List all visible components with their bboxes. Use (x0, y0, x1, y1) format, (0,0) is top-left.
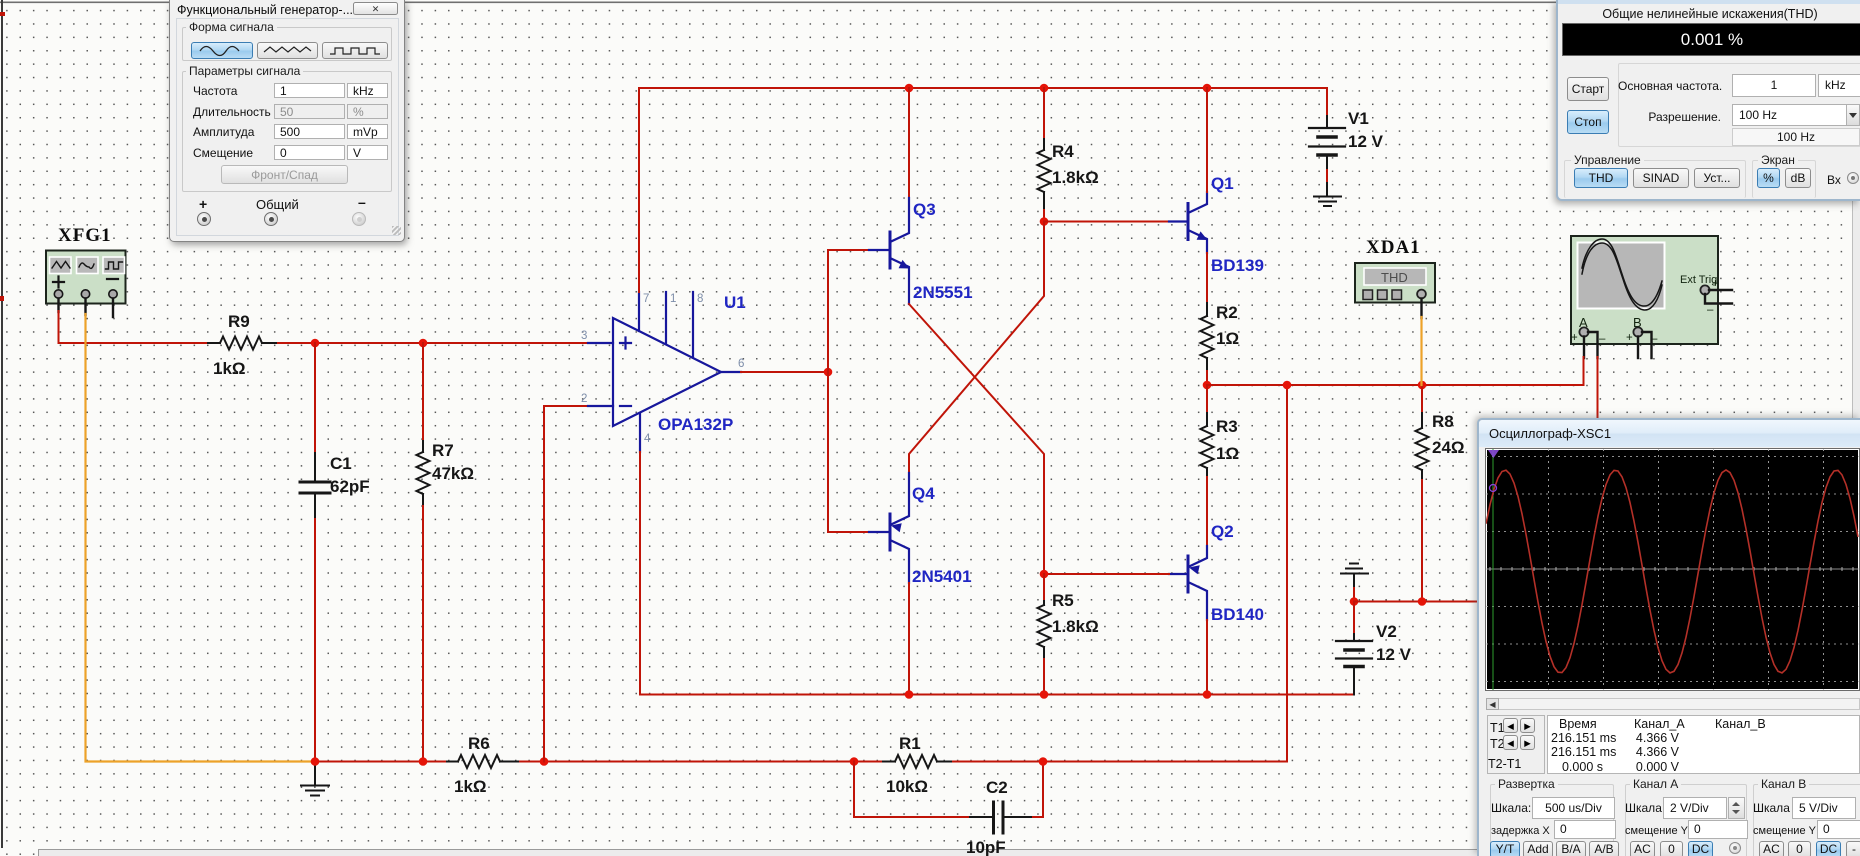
resistor R2 (1201, 303, 1240, 385)
node junction rail/Q3 collector (905, 84, 914, 93)
wire V2 top node (1353, 588, 1355, 602)
node junction R5/Q2 base (1040, 570, 1049, 579)
battery V2 (1336, 602, 1412, 695)
node junction rail/R4 (1040, 84, 1049, 93)
wire op-amp V+ pin7 riser (638, 88, 640, 292)
svg-text:1kΩ: 1kΩ (454, 777, 487, 796)
wire XDA1 orange to output node (1420, 317, 1422, 385)
wire C1 bottom (314, 519, 316, 762)
wire Q4 collector to negative rail (908, 583, 910, 695)
node junction input/R7 (419, 339, 428, 348)
svg-text:R6: R6 (468, 734, 490, 753)
wire scope B+ stub (1637, 337, 1639, 359)
wire output node horizontal (1207, 358, 1584, 385)
node junction negrail/Q4 (905, 690, 914, 699)
wire scope A+ lead (1583, 337, 1585, 359)
node junction output/riser (1283, 381, 1292, 390)
svg-text:U1: U1 (724, 293, 746, 312)
wire Q2 base from R5 node (1044, 573, 1169, 575)
op-amp pin 4 stub (639, 413, 641, 452)
workspace top border (0, 2, 1860, 4)
distortion analyzer XDA1 icon (1355, 263, 1435, 303)
svg-text:+: + (1712, 278, 1719, 290)
node junction R8/V2 net (1418, 597, 1427, 606)
svg-text:Q4: Q4 (912, 484, 935, 503)
resistor R9 (208, 312, 276, 378)
svg-text:C1: C1 (330, 454, 352, 473)
svg-text:12 V: 12 V (1376, 645, 1412, 664)
node junction output/R8 (1418, 381, 1427, 390)
svg-text:62pF: 62pF (330, 477, 370, 496)
workspace left border (1, 0, 3, 848)
op-amp pin 2 stub (588, 405, 613, 407)
wire scope A- hook (1588, 332, 1598, 358)
resistor R3 (1201, 385, 1240, 546)
wire signal input net (59, 311, 589, 343)
wire R4 node to Q4 emitter (diagonal) (909, 222, 1044, 474)
svg-text:3: 3 (581, 330, 587, 342)
node junction rail/feedback (540, 757, 549, 766)
svg-text:1Ω: 1Ω (1216, 329, 1239, 348)
svg-text:XDA1: XDA1 (1366, 237, 1421, 258)
wire R4 node to Q1 base (1044, 221, 1169, 223)
wire scope A+ red (1583, 357, 1585, 385)
svg-text:1: 1 (670, 293, 676, 305)
op-amp pin 1 stub (665, 292, 667, 344)
resistor R4 (1038, 88, 1099, 222)
svg-text:–: – (1599, 333, 1606, 345)
svg-text:Q1: Q1 (1211, 174, 1234, 193)
wire V2 node to scope B under window (1354, 601, 1480, 603)
svg-text:+: + (1571, 332, 1578, 344)
wire op-amp V- pin4 drop and negative rail (640, 452, 1354, 695)
node junction rail/R1-C2 left (850, 757, 859, 766)
svg-text:R2: R2 (1216, 303, 1238, 322)
resistor R6 (447, 734, 518, 796)
wire rail riser to output node (1286, 385, 1288, 762)
svg-text:R4: R4 (1052, 142, 1074, 161)
resistor R5 (1038, 574, 1099, 695)
svg-text:R1: R1 (899, 734, 921, 753)
wire scope B- hook stub (1642, 332, 1652, 358)
transistor Q1 BD139 (1169, 192, 1208, 253)
resistor R1 (883, 734, 951, 796)
svg-text:47kΩ: 47kΩ (432, 464, 474, 483)
node junction rail/R1-C2 right (1039, 757, 1048, 766)
node junction R4/Q1 base (1040, 217, 1049, 226)
svg-text:THD: THD (1381, 270, 1408, 285)
wire scope ext trig + stub (1709, 289, 1732, 291)
svg-text:2N5551: 2N5551 (913, 283, 973, 302)
svg-text:C2: C2 (986, 778, 1008, 797)
svg-text:10pF: 10pF (966, 838, 1006, 856)
resistor R8 (1416, 385, 1465, 602)
svg-text:R8: R8 (1432, 412, 1454, 431)
ground at C1 node (301, 762, 329, 796)
svg-text:24Ω: 24Ω (1432, 438, 1465, 457)
resistor R7 (417, 441, 475, 506)
svg-text:BD139: BD139 (1211, 256, 1264, 275)
ground above V2 (rotated) (1341, 564, 1368, 590)
op-amp pin 6 stub (721, 371, 741, 373)
op-amp pin 3 stub (588, 342, 613, 344)
svg-text:2: 2 (581, 393, 587, 405)
svg-text:+: + (1626, 332, 1633, 344)
wire Q1 collector to rail (1206, 88, 1208, 192)
wire ground net rail (315, 761, 1287, 763)
svg-text:2N5401: 2N5401 (912, 567, 972, 586)
svg-text:R7: R7 (432, 441, 454, 460)
wire op-amp output net (741, 371, 828, 373)
op-amp pin 7 stub (638, 292, 640, 331)
svg-text:R5: R5 (1052, 591, 1074, 610)
wire XFG1 plus lead (57, 299, 59, 313)
svg-text:V2: V2 (1376, 622, 1397, 641)
op-amp U1 OPA132P (588, 292, 741, 452)
wire output to Q4 base (828, 372, 869, 532)
function generator XFG1 icon (46, 251, 126, 304)
svg-text:1.8kΩ: 1.8kΩ (1052, 617, 1099, 636)
svg-text:BD140: BD140 (1211, 605, 1264, 624)
capacitor C2 (966, 778, 1031, 856)
svg-text:XFG1: XFG1 (58, 225, 112, 246)
svg-text:10kΩ: 10kΩ (886, 777, 928, 796)
svg-text:–: – (1707, 304, 1714, 316)
wire feedback to op-amp inverting input (544, 406, 588, 762)
wire R7 top (422, 343, 424, 441)
wire C1 top (314, 343, 316, 453)
svg-text:7: 7 (643, 293, 649, 305)
svg-text:V1: V1 (1348, 109, 1369, 128)
transistor Q3 2N5551 (869, 198, 910, 304)
node junction rail/R7 (419, 757, 428, 766)
svg-text:Q2: Q2 (1211, 522, 1234, 541)
node junction op-amp output (824, 368, 833, 377)
transistor Q2 BD140 (1169, 546, 1207, 620)
wire scope ext trig - hook stub (1705, 294, 1732, 304)
wire C2 branch (854, 762, 1043, 818)
node junction negrail/R5 (1040, 690, 1049, 699)
wire output to Q3 base (828, 250, 869, 372)
node junction rail/C1 (311, 757, 320, 766)
node junction input/C1 (311, 339, 320, 348)
wire XDA1 input lead (1420, 299, 1422, 319)
svg-text:R3: R3 (1216, 417, 1238, 436)
pin number labels (581, 293, 744, 445)
wire Q3 collector riser (908, 88, 910, 198)
node junction output/R2-R3 (1203, 381, 1212, 390)
wire XFG1 common lead (84, 299, 86, 316)
wire XFG1 common orange to ground net (86, 314, 316, 762)
battery V1 (1309, 109, 1384, 196)
op-amp pin 8 stub (692, 292, 694, 357)
wire scope A- red under window (1597, 357, 1599, 418)
svg-text:R9: R9 (228, 312, 250, 331)
transistor Q4 2N5401 (869, 473, 909, 583)
svg-text:8: 8 (697, 293, 703, 305)
svg-text:6: 6 (738, 358, 744, 370)
svg-text:12 V: 12 V (1348, 132, 1384, 151)
wire positive rail V1 (639, 88, 1327, 116)
ground at V1 (1314, 197, 1341, 207)
svg-text:Q3: Q3 (913, 200, 936, 219)
clipped red wire stub left edge (0, 296, 4, 301)
svg-text:1Ω: 1Ω (1216, 444, 1239, 463)
capacitor C1 (300, 453, 370, 519)
clipped red wire stub top-left edge (0, 12, 5, 16)
node junction rail/Q1 collector (1203, 84, 1212, 93)
oscilloscope XSC1 icon (1571, 236, 1719, 345)
svg-text:4: 4 (644, 433, 651, 445)
svg-text:1kΩ: 1kΩ (213, 359, 246, 378)
wire Q1 emitter to R2 (1206, 253, 1208, 309)
wire Q2 collector to negative rail (1206, 620, 1208, 695)
wire XFG1 minus stub (112, 299, 114, 318)
node junction negrail/Q2 (1203, 690, 1212, 699)
wire Q3 emitter to R5 node (diagonal) (909, 304, 1044, 574)
wire R7 bottom (422, 506, 424, 762)
svg-text:OPA132P: OPA132P (658, 415, 733, 434)
node junction V2/R8 net (1350, 597, 1359, 606)
svg-text:1.8kΩ: 1.8kΩ (1052, 168, 1099, 187)
